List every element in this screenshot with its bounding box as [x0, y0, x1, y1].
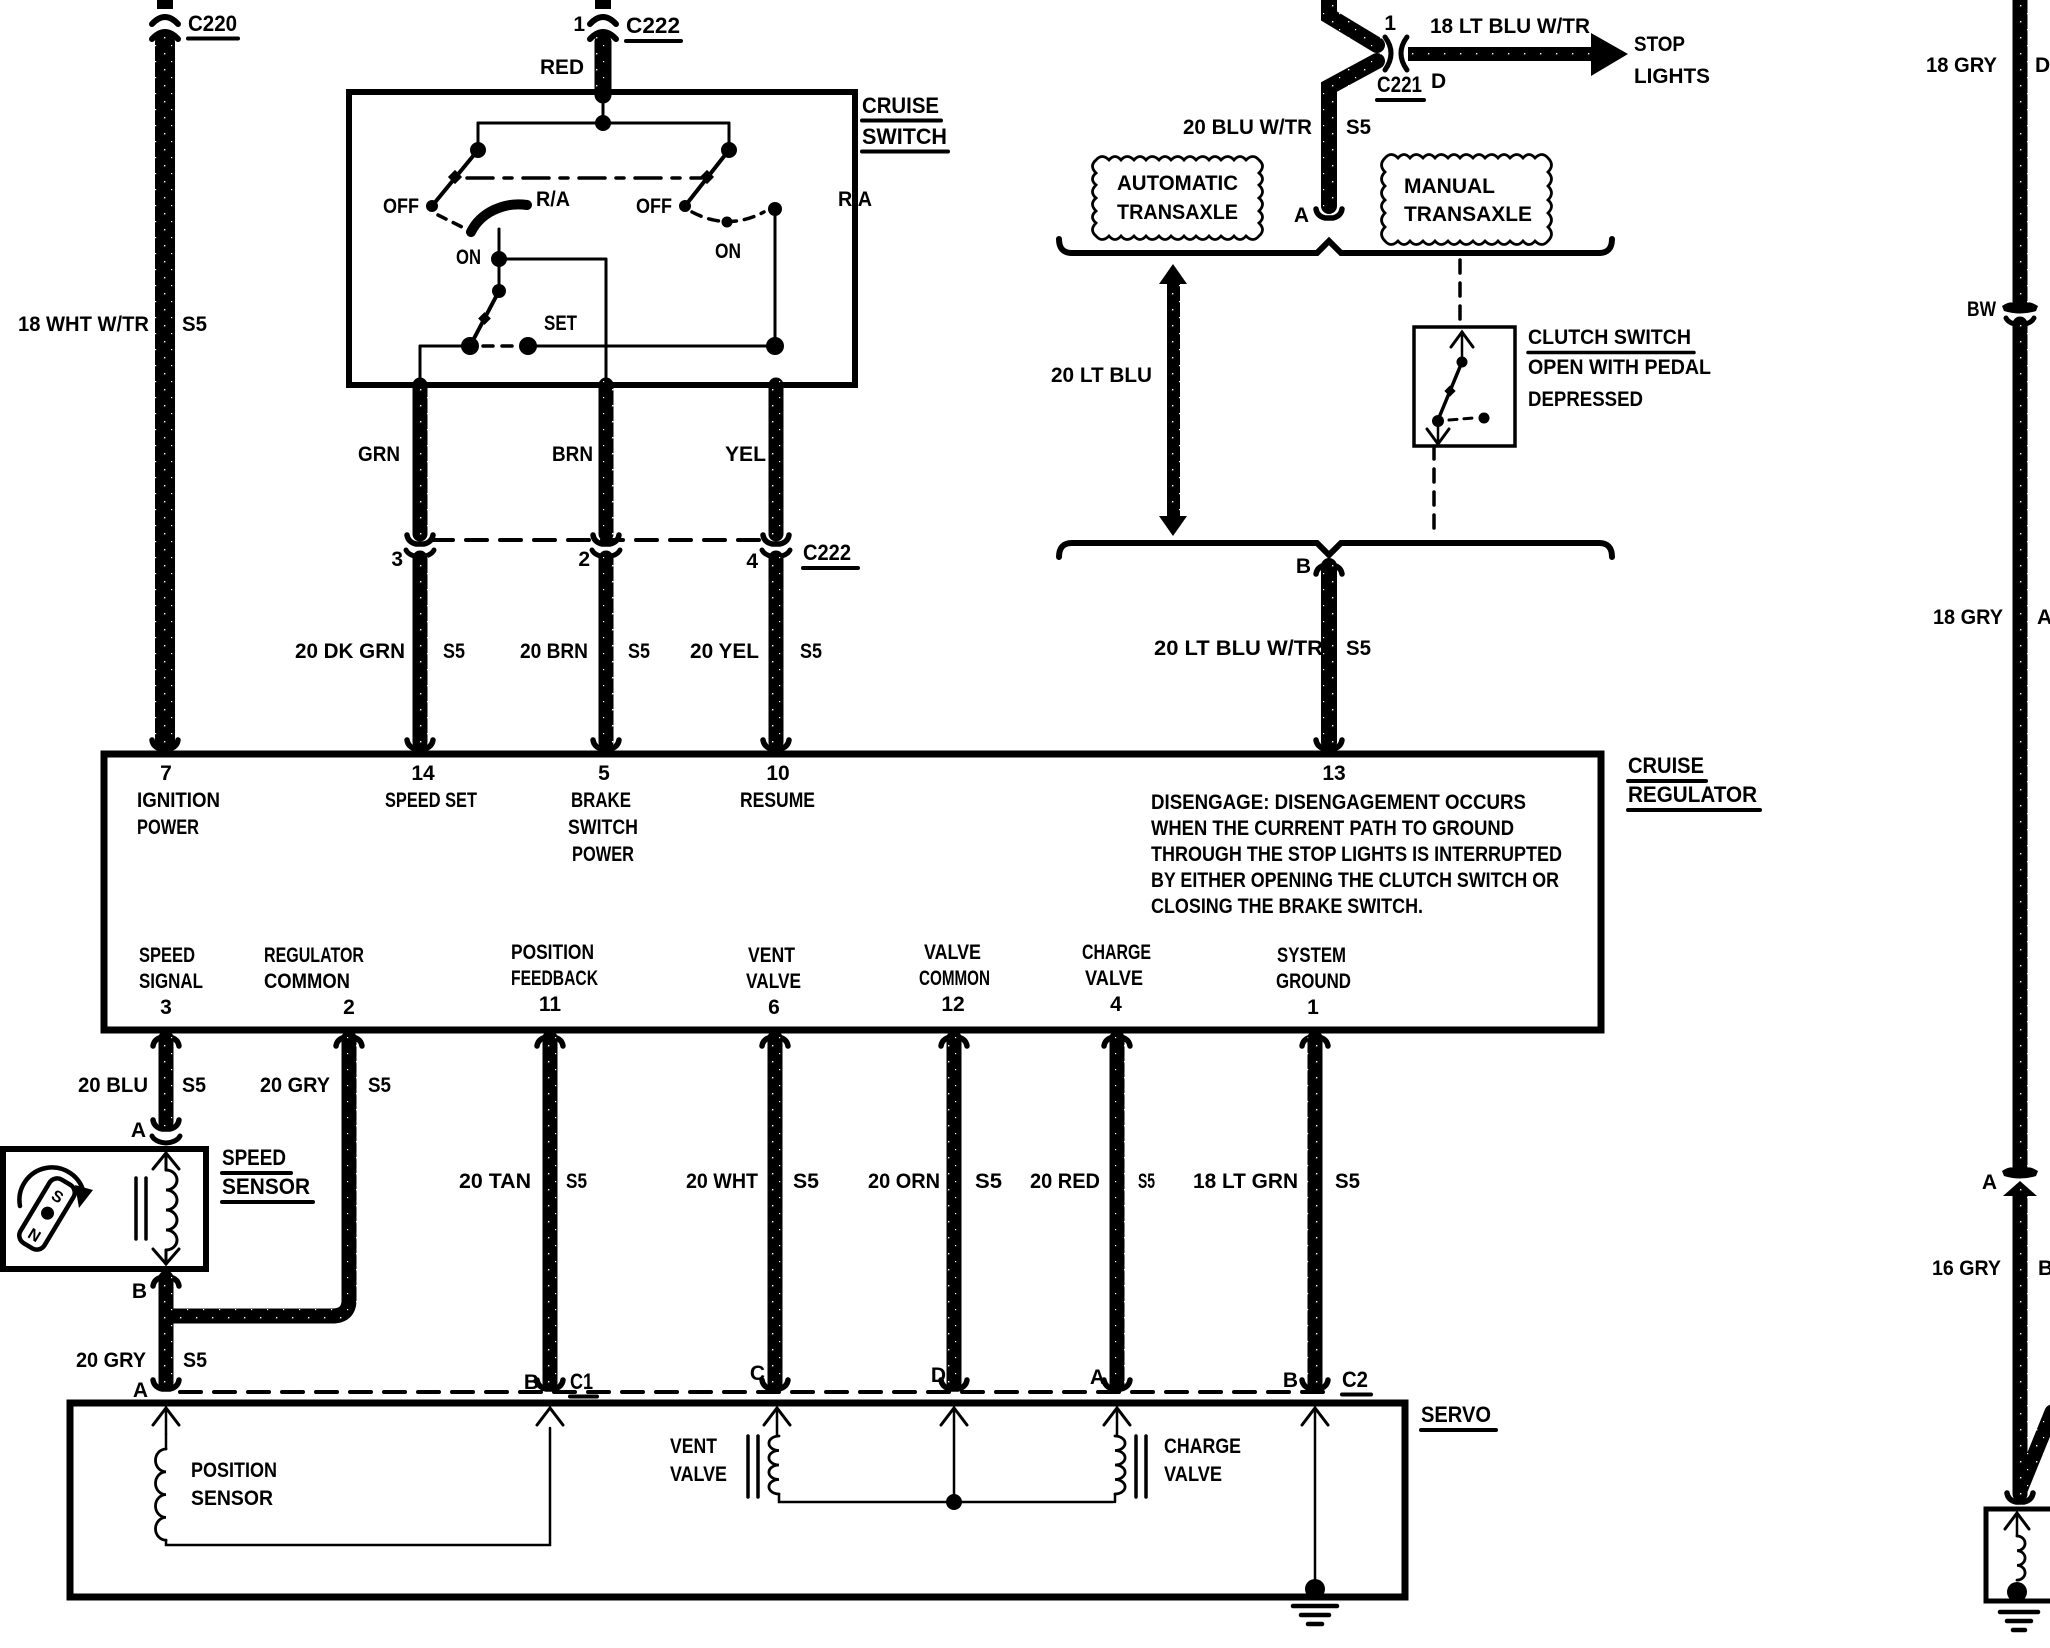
clutch switch arrow in [1451, 332, 1473, 360]
svg-text:MANUAL: MANUAL [1404, 175, 1495, 198]
ground box coil [2017, 1536, 2025, 1580]
svg-text:20 GRY: 20 GRY [260, 1074, 330, 1097]
svg-text:ON: ON [456, 246, 481, 269]
label CRUISE REGULATOR [1628, 753, 1760, 810]
svg-text:GROUND: GROUND [1276, 970, 1351, 993]
label 20 LT BLU W/TR S5 [1154, 637, 1371, 660]
label B C2 [1283, 1367, 1371, 1395]
svg-text:A: A [1294, 204, 1309, 227]
dashed wiper right [692, 212, 764, 222]
svg-text:18 LT BLU W/TR: 18 LT BLU W/TR [1430, 15, 1590, 38]
svg-text:COMMON: COMMON [919, 967, 990, 990]
node OFF right [679, 200, 691, 212]
svg-text:SWITCH: SWITCH [568, 816, 638, 839]
wire RED [595, 42, 612, 95]
svg-text:OFF: OFF [383, 195, 419, 218]
svg-text:CRUISE: CRUISE [1628, 753, 1704, 778]
svg-text:4: 4 [1110, 993, 1122, 1016]
svg-text:POWER: POWER [572, 843, 634, 866]
position sensor return wire [166, 1428, 550, 1545]
wire GRN [413, 385, 428, 534]
node SET pivot [492, 284, 506, 298]
svg-text:VENT: VENT [670, 1435, 717, 1458]
wire 18 LT GRN pin 1 [1302, 1037, 1328, 1046]
label 20 WHT S5 [686, 1170, 819, 1193]
svg-text:R/A: R/A [838, 188, 872, 211]
servo connector dashed line [180, 1390, 1335, 1394]
switch blade left [432, 150, 478, 206]
svg-text:S5: S5 [183, 1349, 207, 1372]
svg-text:S5: S5 [443, 640, 465, 663]
wire 20 ORN pin 12 [941, 1037, 967, 1046]
ground dot right [2007, 1582, 2027, 1602]
svg-text:DEPRESSED: DEPRESSED [1528, 388, 1643, 411]
svg-text:CLOSING THE BRAKE SWITCH.: CLOSING THE BRAKE SWITCH. [1151, 895, 1423, 918]
connector BW [1967, 298, 2038, 325]
wire feed [602, 95, 605, 123]
wire 20 RED pin 4 [1104, 1037, 1130, 1046]
servo pin D arrow and wire [941, 1408, 967, 1502]
servo pin B ground wire [1302, 1408, 1328, 1581]
svg-text:SYSTEM: SYSTEM [1277, 944, 1346, 967]
cruise switch box [349, 92, 855, 385]
pin 6 VENT VALVE [746, 944, 801, 1019]
label CLUTCH SWITCH [1528, 326, 1694, 353]
svg-text:THROUGH THE STOP LIGHTS IS INT: THROUGH THE STOP LIGHTS IS INTERRUPTED [1151, 843, 1562, 866]
svg-text:CHARGE: CHARGE [1082, 941, 1151, 964]
wire arrow to stop lights [1408, 47, 1592, 61]
node ON left [491, 251, 507, 267]
node SET right [519, 337, 537, 355]
pin 12 VALVE COMMON [919, 941, 990, 1016]
svg-text:20 YEL: 20 YEL [690, 640, 759, 663]
wire right drop [728, 123, 731, 150]
manual transaxle callout [1382, 155, 1552, 245]
dashed contact off-left [438, 215, 464, 228]
svg-text:CHARGE: CHARGE [1164, 1435, 1241, 1458]
svg-text:SENSOR: SENSOR [222, 1174, 310, 1199]
label 18 WHT W/TR S5 [18, 313, 207, 336]
label 20 YEL S5 [690, 640, 822, 663]
wire to regulator [599, 558, 614, 742]
wire SET rail [420, 345, 470, 348]
connector C220 [152, 0, 238, 39]
servo pin C arrow [764, 1408, 790, 1436]
pin 14 SPEED SET [385, 762, 477, 812]
svg-text:SET: SET [544, 312, 577, 335]
wire 20 WHT pin 6 [762, 1037, 788, 1046]
svg-text:3: 3 [391, 548, 403, 571]
svg-text:REGULATOR: REGULATOR [264, 944, 364, 967]
svg-text:R/A: R/A [536, 188, 570, 211]
svg-text:A: A [2037, 606, 2050, 629]
speed sensor coil [166, 1153, 177, 1264]
wire top bus [478, 122, 729, 125]
speed sensor box [3, 1149, 206, 1269]
mechanical link dashes [467, 176, 701, 180]
node left pivot [470, 142, 486, 158]
svg-text:1: 1 [1307, 996, 1319, 1019]
svg-text:YEL: YEL [725, 443, 766, 466]
node feed junction [595, 115, 611, 131]
svg-text:SWITCH: SWITCH [862, 124, 947, 149]
svg-text:GRN: GRN [358, 443, 400, 466]
svg-text:SPEED: SPEED [139, 944, 195, 967]
wire 20 LT BLU W/TR pin 13 [1321, 566, 1337, 742]
cruise regulator box [104, 754, 1601, 1030]
ground symbol right [2000, 1612, 2038, 1630]
node right pivot [721, 142, 737, 158]
label STOP LIGHTS [1634, 33, 1710, 88]
svg-text:A: A [1982, 1171, 1997, 1194]
dashed SET contact [483, 344, 514, 348]
position sensor coil [155, 1434, 166, 1540]
magnet [16, 1175, 78, 1253]
label SPEED SENSOR [222, 1145, 313, 1202]
servo pin B arrow [537, 1408, 563, 1425]
svg-text:POWER: POWER [137, 816, 199, 839]
label 20 RED S5 [1030, 1170, 1155, 1193]
label 20 GRY S5 pin2 [260, 1074, 391, 1097]
wire 20 BLU W/TR upper diagonal [1329, 0, 1377, 45]
pin 4 CHARGE VALVE [1082, 941, 1151, 1016]
label 18 GRY A [1933, 606, 2050, 629]
wire YEL riser [774, 209, 777, 346]
wire 20 GRY to servo A [159, 1278, 174, 1383]
svg-text:COMMON: COMMON [264, 970, 350, 993]
connector C222 dashed line [432, 538, 766, 542]
svg-text:RED: RED [540, 56, 584, 79]
svg-text:C220: C220 [188, 11, 237, 36]
label 20 DK GRN S5 [295, 640, 465, 663]
svg-text:CLUTCH SWITCH: CLUTCH SWITCH [1528, 326, 1691, 349]
svg-text:S5: S5 [1138, 1170, 1155, 1193]
label 18 LT GRN S5 [1193, 1170, 1360, 1193]
svg-text:B: B [132, 1280, 147, 1303]
wire 16 GRY B [2013, 1194, 2028, 1494]
svg-text:TRANSAXLE: TRANSAXLE [1117, 201, 1238, 224]
svg-text:2: 2 [578, 548, 590, 571]
switch blade SET [470, 291, 499, 346]
clutch switch arrow out [1427, 421, 1449, 444]
svg-text:20 GRY: 20 GRY [76, 1349, 146, 1372]
wire end flare [2007, 1493, 2033, 1502]
vent valve bottom wire [779, 1494, 1113, 1502]
svg-text:SERVO: SERVO [1421, 1402, 1491, 1427]
label 16 GRY B [1932, 1257, 2050, 1280]
svg-text:POSITION: POSITION [191, 1459, 277, 1482]
svg-text:20 WHT: 20 WHT [686, 1170, 758, 1193]
wire junction lower diagonal to A [1329, 61, 1377, 206]
automatic transaxle callout [1093, 157, 1263, 240]
svg-text:11: 11 [539, 993, 562, 1016]
svg-text:LIGHTS: LIGHTS [1634, 65, 1710, 88]
pin 3 SPEED SIGNAL [139, 944, 203, 1019]
svg-text:20 DK GRN: 20 DK GRN [295, 640, 405, 663]
node OFF left [426, 200, 438, 212]
svg-text:20 BRN: 20 BRN [520, 640, 588, 663]
valve common junction [946, 1494, 962, 1510]
wire arc to ON [498, 229, 501, 259]
arrow into coil [153, 1153, 179, 1169]
svg-text:20 RED: 20 RED [1030, 1170, 1100, 1193]
svg-text:7: 7 [160, 762, 172, 785]
svg-text:CRUISE: CRUISE [862, 93, 939, 118]
node YEL rail [766, 337, 784, 355]
node SET common [461, 337, 479, 355]
svg-text:S5: S5 [1346, 116, 1371, 139]
svg-text:VALVE: VALVE [670, 1463, 727, 1486]
node ON right [722, 217, 733, 228]
svg-text:6: 6 [768, 996, 780, 1019]
svg-text:18 LT GRN: 18 LT GRN [1193, 1170, 1298, 1193]
pin 10 RESUME [740, 762, 815, 812]
svg-text:D: D [2035, 54, 2050, 77]
svg-text:TRANSAXLE: TRANSAXLE [1404, 203, 1532, 226]
wire BRN [599, 385, 614, 534]
servo box [70, 1403, 1405, 1597]
svg-text:DISENGAGE: DISENGAGEMENT OCCUR: DISENGAGE: DISENGAGEMENT OCCURS [1151, 791, 1526, 814]
svg-text:14: 14 [411, 762, 435, 785]
svg-text:13: 13 [1322, 762, 1345, 785]
dashed wire to clutch switch [1458, 260, 1462, 324]
wire to regulator [413, 558, 428, 742]
charge valve core bars [1134, 1436, 1138, 1497]
svg-text:SPEED SET: SPEED SET [385, 789, 477, 812]
svg-text:S5: S5 [800, 640, 822, 663]
connector C222 pin 1 [573, 0, 681, 41]
clutch switch upper node [1457, 357, 1468, 368]
svg-text:20 TAN: 20 TAN [459, 1170, 531, 1193]
servo pin A charge arrow [1104, 1408, 1130, 1436]
svg-text:SIGNAL: SIGNAL [139, 970, 203, 993]
svg-text:D: D [931, 1364, 946, 1387]
connector C222 pin 3 [407, 535, 433, 544]
bottom brace [1059, 543, 1612, 557]
svg-text:A: A [131, 1119, 146, 1142]
svg-text:4: 4 [746, 550, 758, 573]
node R/A right [768, 202, 782, 216]
svg-text:STOP: STOP [1634, 33, 1685, 56]
label POSITION SENSOR [191, 1459, 277, 1510]
svg-text:RESUME: RESUME [740, 789, 815, 812]
svg-text:20 BLU: 20 BLU [78, 1074, 148, 1097]
clutch switch dashed contact [1449, 418, 1473, 420]
wire left drop [477, 123, 480, 150]
pin 5 BRAKE SWITCH POWER [568, 762, 638, 866]
svg-text:20 BLU W/TR: 20 BLU W/TR [1183, 116, 1312, 139]
charge valve coil [1115, 1436, 1125, 1494]
connector B speed sensor [132, 1277, 179, 1303]
label C222 lower [803, 540, 858, 568]
label B C1 [524, 1369, 597, 1397]
svg-text:1: 1 [573, 13, 585, 36]
charge valve bottom wire [1114, 1494, 1117, 1502]
wire 20 GRY pin 2 regulator common [336, 1037, 362, 1046]
pin 2 REGULATOR COMMON [264, 944, 364, 1019]
svg-text:WHEN THE CURRENT PATH TO GROUN: WHEN THE CURRENT PATH TO GROUND [1151, 817, 1514, 840]
wire YEL [769, 385, 784, 534]
connector C221 chevrons [1385, 37, 1391, 70]
svg-text:IGNITION: IGNITION [137, 789, 220, 812]
label VENT VALVE [670, 1435, 727, 1486]
wire 18 GRY D upper [2013, 0, 2028, 303]
label CRUISE SWITCH [862, 93, 948, 152]
wire 18 GRY A middle [2013, 324, 2028, 1168]
clutch switch lower node [1432, 415, 1444, 427]
label 20 TAN S5 [459, 1170, 587, 1193]
svg-text:2: 2 [343, 996, 355, 1019]
svg-text:VALVE: VALVE [1164, 1463, 1222, 1486]
servo ground [1293, 1579, 1337, 1624]
svg-text:B: B [2038, 1257, 2050, 1280]
svg-text:12: 12 [941, 993, 964, 1016]
svg-text:FEEDBACK: FEEDBACK [511, 967, 598, 990]
svg-text:3: 3 [160, 996, 172, 1019]
wire 20 LT BLU double arrow [1159, 264, 1187, 536]
servo pin A arrow [153, 1408, 179, 1434]
pin 11 POSITION FEEDBACK [511, 941, 598, 1016]
wire to regulator [769, 558, 784, 742]
label SERVO [1421, 1402, 1496, 1430]
ground box right [1986, 1509, 2050, 1601]
label CHARGE VALVE [1164, 1435, 1241, 1486]
svg-text:OFF: OFF [636, 195, 672, 218]
connector A top [1294, 204, 1342, 227]
svg-text:VENT: VENT [748, 944, 795, 967]
svg-text:BY EITHER OPENING THE CLUTCH S: BY EITHER OPENING THE CLUTCH SWITCH OR [1151, 869, 1559, 892]
clutch switch box [1414, 327, 1515, 446]
arrow out of coil [153, 1249, 179, 1264]
svg-text:BRAKE: BRAKE [571, 789, 631, 812]
svg-text:C221: C221 [1377, 72, 1422, 97]
svg-text:VALVE: VALVE [924, 941, 981, 964]
connector A right [1982, 1167, 2038, 1196]
svg-text:20 ORN: 20 ORN [868, 1170, 940, 1193]
connector C222 pin 4 [763, 535, 789, 544]
svg-text:REGULATOR: REGULATOR [1628, 782, 1757, 807]
svg-text:20 LT BLU W/TR: 20 LT BLU W/TR [1154, 637, 1323, 660]
svg-text:10: 10 [766, 762, 789, 785]
svg-text:S5: S5 [182, 1074, 206, 1097]
svg-text:16 GRY: 16 GRY [1932, 1257, 2001, 1280]
svg-text:VALVE: VALVE [746, 970, 801, 993]
svg-text:SPEED: SPEED [222, 1145, 286, 1170]
pickup core bars [134, 1178, 138, 1239]
ground box arrow [2005, 1513, 2029, 1536]
svg-text:S5: S5 [182, 313, 207, 336]
svg-text:C222: C222 [803, 540, 851, 565]
svg-text:B: B [1283, 1369, 1298, 1392]
svg-text:1: 1 [1384, 12, 1396, 35]
wire 20 BLU pin 3 to speed sensor [153, 1037, 179, 1046]
connector C222 pin 2 [593, 535, 619, 544]
pin 7 IGNITION POWER [137, 762, 220, 839]
rotation arrow [19, 1167, 84, 1206]
svg-text:C222: C222 [626, 13, 680, 38]
svg-text:C2: C2 [1342, 1367, 1368, 1392]
wire GRN drop [419, 346, 422, 385]
svg-text:SENSOR: SENSOR [191, 1487, 273, 1510]
svg-text:S5: S5 [628, 640, 650, 663]
svg-text:S5: S5 [368, 1074, 391, 1097]
svg-text:VALVE: VALVE [1085, 967, 1143, 990]
svg-text:C: C [750, 1362, 765, 1385]
label 20 BLU S5 [78, 1074, 206, 1097]
svg-text:AUTOMATIC: AUTOMATIC [1117, 172, 1238, 195]
connector B [1296, 555, 1342, 578]
top brace [1059, 239, 1612, 253]
svg-text:S5: S5 [1346, 637, 1371, 660]
svg-text:S5: S5 [975, 1170, 1002, 1193]
clutch switch blade [1438, 362, 1462, 420]
svg-text:18 GRY: 18 GRY [1926, 54, 1997, 77]
svg-text:20 LT BLU: 20 LT BLU [1051, 364, 1152, 387]
pin 13 DISENGAGE note [1151, 762, 1562, 918]
svg-text:D: D [1431, 70, 1446, 93]
svg-text:B: B [1296, 555, 1311, 578]
diagonal joining wire [2021, 1412, 2050, 1488]
svg-text:S5: S5 [566, 1170, 587, 1193]
svg-text:S5: S5 [1335, 1170, 1360, 1193]
svg-text:ON: ON [715, 240, 741, 263]
svg-text:OPEN WITH PEDAL: OPEN WITH PEDAL [1528, 356, 1711, 379]
svg-text:5: 5 [598, 762, 610, 785]
svg-text:POSITION: POSITION [511, 941, 594, 964]
svg-text:A: A [133, 1379, 148, 1402]
label 20 BRN S5 [520, 640, 650, 663]
wire ON to BRN drop [499, 258, 606, 261]
label 20 BLU W/TR S5 [1183, 116, 1371, 139]
label 18 GRY D [1926, 54, 2050, 77]
switch blade right [685, 150, 729, 206]
svg-text:BRN: BRN [552, 443, 593, 466]
svg-text:BW: BW [1967, 298, 1996, 321]
R/A wiper arc [471, 204, 527, 232]
clutch switch right node [1479, 413, 1490, 424]
dashed wire below clutch switch [1432, 446, 1436, 530]
label 20 GRY S5 servo [76, 1349, 207, 1372]
label 20 ORN S5 [868, 1170, 1002, 1193]
vent valve core bars [746, 1436, 750, 1497]
label C221 D [1377, 70, 1446, 100]
svg-text:A: A [1090, 1366, 1105, 1389]
wire 20 TAN pin 11 [537, 1037, 563, 1046]
wire ON down [498, 259, 501, 291]
svg-text:S5: S5 [793, 1170, 819, 1193]
vent valve coil [769, 1436, 779, 1494]
pin 1 SYSTEM GROUND [1276, 944, 1351, 1019]
wire 18 WHT W/TR to regulator pin 7 [155, 42, 175, 742]
svg-text:18 WHT W/TR: 18 WHT W/TR [18, 313, 149, 336]
svg-text:18 GRY: 18 GRY [1933, 606, 2003, 629]
